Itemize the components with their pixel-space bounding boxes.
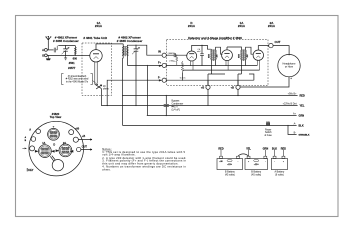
svg-text:600: 600	[73, 56, 78, 60]
resistor ballast 6 ohms	[181, 61, 183, 73]
peripheral terminal A	[36, 129, 41, 134]
tube V1	[90, 50, 102, 62]
svg-text:(45 volts): (45 volts)	[225, 173, 235, 176]
svg-text:8000: 8000	[238, 54, 240, 58]
wire top bus box2	[136, 45, 162, 55]
svg-text:4. Numbers on transformer wind: 4. Numbers on transformer windings are D…	[102, 165, 186, 169]
battery B2	[245, 156, 268, 176]
plate feed segment	[208, 64, 241, 85]
plate wire D	[192, 45, 212, 51]
terminal Fminus	[162, 78, 166, 82]
terminal F1	[162, 63, 166, 67]
xformer2 T2	[122, 44, 136, 66]
svg-text:(1/4 uF): (1/4 uF)	[172, 108, 181, 111]
tube label 2A top	[268, 21, 276, 28]
tube unit dashed box	[82, 43, 112, 96]
filament bus F1 inside box	[166, 64, 257, 66]
socket 1A left	[35, 145, 55, 158]
svg-text:+90: +90	[219, 161, 222, 163]
peripheral terminal -A	[30, 146, 35, 151]
capacitor fixed C ant	[54, 46, 57, 53]
svg-text:2A: 2A	[63, 142, 66, 145]
svg-text:+: +	[53, 124, 55, 128]
peripheral terminal OUT	[77, 147, 81, 151]
tube label 1A amp top	[238, 21, 246, 28]
peripheral terminal +90	[69, 130, 74, 135]
peripheral terminal +B	[73, 137, 78, 142]
tube 1A	[222, 50, 233, 61]
svg-text:201A: 201A	[268, 24, 276, 28]
svg-text:430: 430	[247, 55, 249, 58]
key pointer circle	[52, 160, 63, 171]
svg-text:GRN&BLK: GRN&BLK	[299, 135, 310, 137]
variable capacitor C1	[62, 45, 70, 56]
svg-text:A: A	[25, 136, 27, 139]
svg-text:OUT: OUT	[82, 145, 88, 148]
svg-text:Power: Power	[265, 129, 272, 132]
svg-text:-: -	[238, 161, 239, 163]
notes	[102, 147, 186, 172]
tube label D top	[188, 21, 196, 28]
wire OUT to headphone	[273, 46, 289, 56]
svg-text:GRN: GRN	[299, 115, 305, 118]
terminal OUT	[269, 43, 273, 47]
svg-text:RED: RED	[281, 147, 286, 150]
svg-text:mfd: mfd	[197, 51, 200, 53]
svg-text:201A: 201A	[238, 24, 246, 28]
svg-text:RED: RED	[300, 95, 305, 98]
svg-text:ohms: ohms	[103, 89, 109, 91]
svg-text:(6 volts): (6 volts)	[275, 173, 284, 176]
filament bus 2 inside box	[183, 69, 260, 71]
socket 2A right	[56, 144, 74, 157]
svg-text:(If shown/dashed): (If shown/dashed)	[68, 76, 87, 78]
svg-text:B: B	[25, 140, 27, 142]
svg-text:Top View: Top View	[50, 115, 62, 119]
wire A to condenser	[47, 49, 53, 51]
svg-text:# 4052 was only used: # 4052 was only used	[66, 79, 89, 81]
detector tube D	[187, 51, 197, 61]
socket D top	[48, 124, 60, 140]
svg-text:1A: 1A	[42, 142, 45, 145]
terminal +90	[236, 85, 240, 89]
svg-text:(.00025): (.00025)	[168, 53, 175, 55]
svg-text:#4577: #4577	[68, 66, 76, 70]
branch B-	[288, 126, 297, 135]
big circle top view	[50, 112, 62, 119]
plate wire 2A to OUT	[258, 46, 268, 50]
headphone	[278, 54, 300, 76]
svg-text:YEL: YEL	[300, 105, 305, 108]
svg-text:+: +	[290, 77, 292, 80]
filament wires V1	[95, 61, 97, 84]
wire headphone to +B	[240, 77, 289, 87]
wire V1 down	[122, 58, 124, 126]
wire grid to tube	[75, 55, 89, 57]
grid leak 2 Meg	[176, 55, 178, 65]
svg-text:A: A	[42, 48, 44, 52]
svg-text:8000: 8000	[208, 54, 210, 58]
svg-text:+22½v B Det: +22½v B Det	[283, 101, 297, 105]
antenna	[45, 36, 51, 50]
svg-text:OUT: OUT	[275, 40, 281, 44]
wire bottom bus box2	[127, 64, 162, 66]
terminal +B	[206, 85, 210, 89]
tube label 1A top	[95, 21, 103, 28]
peripheral terminal G	[31, 137, 36, 142]
svg-text:ohms.: ohms.	[102, 168, 111, 172]
value 20 ohms	[103, 86, 109, 91]
svg-text:YEL: YEL	[246, 147, 251, 150]
bus F- inside box	[166, 79, 254, 81]
svg-text:& Fuse: & Fuse	[265, 135, 273, 137]
bus L2 +22	[101, 105, 297, 107]
rheostat R1	[95, 84, 102, 105]
svg-text:# 4865 Condenser: # 4865 Condenser	[53, 39, 80, 43]
battery A	[271, 156, 287, 176]
svg-text:Switch: Switch	[265, 131, 272, 134]
label xformer1	[53, 36, 80, 43]
svg-text:201A: 201A	[188, 24, 196, 28]
socket labels	[42, 142, 66, 146]
bypass condenser	[164, 96, 169, 116]
wire bottom bus box1	[47, 54, 75, 56]
bus L1 +90	[123, 95, 298, 97]
svg-text:430: 430	[217, 55, 219, 58]
svg-text:A-: A-	[294, 122, 297, 125]
svg-text:# 4865 Condenser: # 4865 Condenser	[117, 39, 144, 43]
svg-text:GRN: GRN	[263, 147, 269, 150]
grid condenser	[166, 53, 187, 57]
svg-text:+B: +B	[82, 135, 85, 138]
svg-text:in the 4340 Model 9's: in the 4340 Model 9's	[66, 81, 89, 84]
svg-text:+90v B+: +90v B+	[288, 92, 298, 95]
label xformer2	[117, 36, 144, 43]
AF transformer T4	[227, 47, 253, 65]
fuse	[266, 123, 269, 126]
svg-text:# 4861 Tube Unit: # 4861 Tube Unit	[83, 36, 107, 40]
svg-text:-: -	[265, 161, 266, 163]
svg-text:2 Meg.: 2 Meg.	[169, 61, 175, 63]
svg-text:A: A	[29, 129, 31, 132]
svg-text:+22½: +22½	[227, 162, 232, 166]
variable capacitor C2	[132, 45, 140, 66]
tube 2A	[253, 50, 263, 60]
bypass cap det	[200, 45, 204, 65]
terminal G	[45, 54, 48, 57]
svg-text:or Horn: or Horn	[285, 66, 294, 69]
note box dashed 4052	[62, 74, 98, 85]
detector dashed box	[167, 40, 269, 86]
wire cap2 down to L2	[135, 65, 137, 105]
plate wire V1	[96, 44, 123, 50]
svg-text:#561: #561	[69, 61, 75, 65]
svg-text:-: -	[274, 161, 275, 163]
wire top bus box1	[58, 45, 75, 47]
svg-text:RED: RED	[218, 147, 223, 150]
svg-text:+: +	[248, 161, 250, 163]
svg-text:+90: +90	[75, 127, 80, 130]
jumper B1-B2	[238, 154, 249, 156]
svg-text:+B: +B	[231, 86, 234, 89]
AF transformer T3	[208, 47, 222, 65]
svg-text:Detector and 2-Stage Amplifier: Detector and 2-Stage Amplifier # 4820	[188, 36, 242, 40]
svg-text:A+: A+	[293, 112, 297, 115]
terminal A	[45, 49, 48, 52]
svg-text:BLK: BLK	[299, 125, 304, 128]
svg-text:F-: F-	[158, 76, 161, 79]
svg-text:+B: +B	[201, 86, 204, 89]
battery B1	[217, 156, 243, 176]
ground	[47, 55, 49, 58]
svg-text:201A: 201A	[95, 24, 103, 28]
svg-text:BLK: BLK	[272, 147, 277, 150]
svg-text:IN: IN	[158, 51, 161, 54]
bus L4 A-	[123, 125, 297, 127]
terminal IN	[162, 53, 166, 57]
plate wire 1A	[226, 47, 228, 50]
wire F- left	[107, 80, 162, 105]
svg-text:+22½: +22½	[254, 162, 259, 166]
svg-text:+: +	[283, 161, 285, 163]
svg-text:D: D	[53, 143, 55, 146]
svg-text:G: G	[42, 54, 44, 58]
svg-text:KEY: KEY	[28, 169, 33, 172]
bus L3 A+	[147, 115, 297, 117]
ground under variable cap	[64, 56, 67, 60]
svg-text:(45 volts): (45 volts)	[251, 173, 261, 176]
coil L1 autotransformer	[75, 46, 77, 56]
svg-text:F+: F+	[158, 62, 162, 65]
svg-text:B-: B-	[294, 131, 297, 134]
wire junction down to L3	[146, 65, 148, 115]
KEY label	[26, 168, 28, 171]
